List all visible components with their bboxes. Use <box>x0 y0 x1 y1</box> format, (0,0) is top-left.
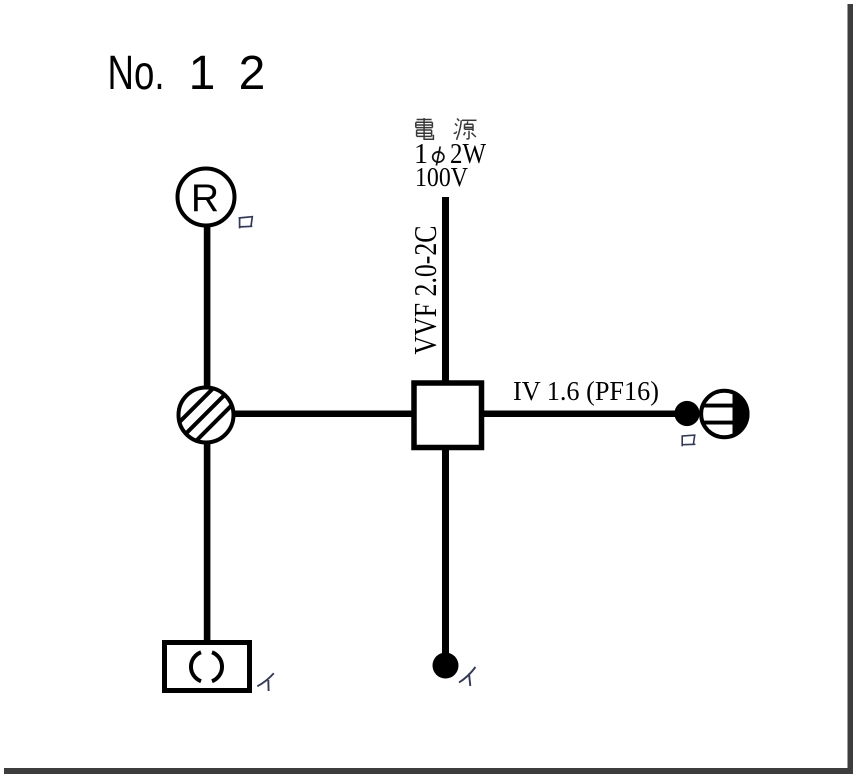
title No.12 <box>108 47 266 100</box>
svg-text:No.: No. <box>108 47 165 100</box>
wire: box to hatched circle (left horizontal) <box>233 411 413 418</box>
svg-text:100V: 100V <box>415 162 468 192</box>
label ro (katakana) near R <box>239 217 253 229</box>
svg-text:1: 1 <box>189 47 216 100</box>
label i (katakana) near dot <box>459 667 476 686</box>
label i (katakana) near rosette <box>257 673 274 691</box>
label ro (katakana) near right dot <box>682 435 696 446</box>
frame shadow bottom <box>4 768 853 774</box>
wire: box down to ceiling dot <box>442 448 449 658</box>
svg-text:IV 1.6 (PF16): IV 1.6 (PF16) <box>513 376 659 406</box>
wall dot at right lamp <box>674 401 699 426</box>
wire: box to right lamp (IV 1.6 PF16) <box>482 411 680 418</box>
svg-text:R: R <box>191 177 219 220</box>
label 電 (power source kanji DEN) <box>416 118 434 139</box>
angled ceiling rosette (rect with parentheses) <box>165 643 250 691</box>
svg-text:2: 2 <box>239 47 266 100</box>
junction box (outlet box) <box>414 383 482 448</box>
joint box (hatched circle) <box>160 354 255 452</box>
wall-mounted lamp symbol (circle, right half black, two bars) <box>698 388 751 440</box>
lamp receptacle R <box>178 169 235 226</box>
wire: power source vertical (VVF 2.0-2C) <box>442 197 449 383</box>
wire: hatched circle down to ceiling rosette <box>204 442 211 642</box>
ceiling dot (pendant point) <box>433 653 459 679</box>
svg-text:VVF 2.0-2C: VVF 2.0-2C <box>407 226 443 355</box>
frame shadow right <box>848 4 854 774</box>
label 源 (power source kanji GEN) <box>454 119 477 140</box>
wire: hatched circle up to lamp receptacle R <box>204 225 211 388</box>
